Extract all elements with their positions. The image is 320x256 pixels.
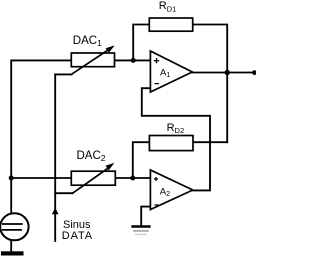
svg-text:DATA: DATA — [62, 230, 93, 242]
